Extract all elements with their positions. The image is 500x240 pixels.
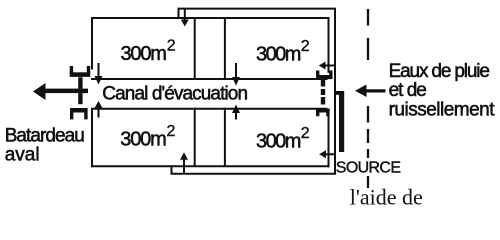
svg-text:aval: aval [5, 144, 40, 165]
svg-text:et de: et de [389, 80, 427, 101]
svg-text:2: 2 [301, 38, 310, 55]
batardeau aval slots: left top bar with lips [70, 66, 91, 77]
basin walls [91, 9, 335, 174]
batardeau right dashed gate line [321, 80, 325, 105]
boundary dashed line right of basin [367, 9, 369, 188]
svg-text:2: 2 [167, 38, 176, 55]
label: cell area top-left [121, 38, 176, 65]
svg-text:SOURCE: SOURCE [336, 160, 401, 177]
arrow: right channel into top-right cell [319, 62, 335, 70]
arrow: right channel into bottom-right cell [319, 150, 335, 158]
wire: box top edge [91, 17, 330, 19]
arrow: batardeau aval outflow (big left arrow) [33, 83, 88, 100]
label: cell area top-right [256, 38, 310, 66]
node SOURCE channel: thick bar [339, 91, 344, 152]
wire: outer channel top, right and bottom run [172, 9, 336, 174]
svg-text:2: 2 [167, 123, 176, 140]
wire: source channel connector to outer wall [334, 91, 339, 95]
batardeau aval slots: left bottom bar with lips [70, 108, 88, 119]
wire: box left wall lower [91, 109, 93, 168]
wire: box bottom edge [91, 165, 330, 167]
svg-text:ruissellement: ruissellement [389, 99, 496, 120]
batardeau left dashed gate line [78, 77, 82, 104]
svg-text:2: 2 [301, 125, 310, 142]
svg-text:Canal d'évacuation: Canal d'évacuation [102, 84, 247, 105]
wire: divider upper-left [194, 17, 196, 80]
arrow: outflow at bottom of basin [180, 152, 188, 173]
wire: canal bottom line [91, 108, 328, 110]
label: cell area bottom-left [120, 123, 175, 151]
batardeau slots: right bottom bar with lips [316, 109, 330, 117]
arrow: bottom-center cell into canal [232, 105, 240, 120]
label: cell area bottom-right [256, 125, 310, 153]
arrow: top-center cell into canal [232, 63, 240, 86]
wire: box left wall upper [91, 17, 93, 70]
svg-text:300m: 300m [256, 43, 301, 65]
wire: box right inner wall lower [328, 112, 330, 167]
wire: divider lower-left [194, 108, 196, 167]
arrow: top-left cell into canal [95, 63, 103, 85]
arrow: eaux de pluie inflow (thick left arrow) [355, 85, 386, 98]
batardeau slots: right top bar with lips [316, 71, 333, 80]
label: Batardeau aval [5, 125, 85, 165]
arrow: inflow at top into basin [181, 9, 189, 27]
svg-text:300m: 300m [256, 130, 301, 152]
svg-text:300m: 300m [120, 129, 166, 151]
svg-text:Batardeau: Batardeau [5, 125, 85, 146]
wire: divider lower-right [224, 108, 226, 167]
svg-text:300m: 300m [121, 43, 167, 65]
wire: canal top line [91, 78, 328, 80]
label: Eaux de pluie et de ruissellement [389, 61, 496, 121]
wire: box right inner wall upper [328, 17, 330, 73]
svg-text:l'aide de: l'aide de [350, 184, 423, 209]
arrow: bottom-left cell into canal [95, 101, 103, 118]
svg-text:Eaux de pluie: Eaux de pluie [389, 61, 490, 82]
wire: divider upper-right [224, 17, 226, 80]
